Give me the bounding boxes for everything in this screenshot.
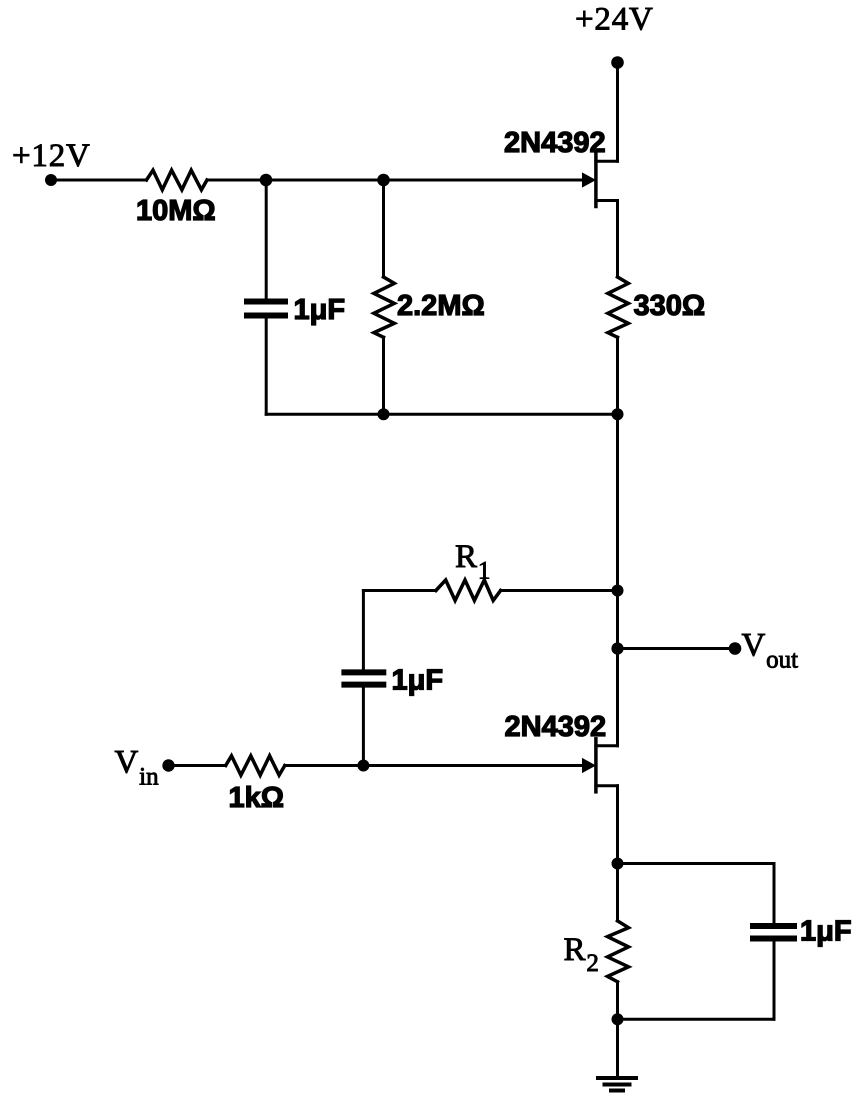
svg-text:2N4392: 2N4392	[504, 127, 606, 159]
svg-text:R1: R1	[455, 539, 490, 585]
wire R1 left vertical	[362, 591, 365, 670]
node junction bus / 2.2M	[378, 408, 390, 420]
svg-text:Vin: Vin	[115, 745, 160, 791]
resistor R1	[436, 580, 501, 601]
ground	[596, 1076, 638, 1080]
wire rail down to Vout node	[616, 591, 619, 649]
transistor Q2 2N4392 channel bar	[594, 739, 598, 792]
wire C3 down	[773, 942, 776, 1020]
node Vout terminal	[729, 642, 742, 655]
wire bypass top	[618, 862, 775, 865]
wire R2 to ground node	[616, 982, 619, 1019]
node junction A (cap branch)	[260, 174, 273, 187]
node Vout junction	[611, 642, 623, 654]
node junction source / bypass	[612, 858, 624, 870]
wire Q2 gate arrow	[169, 764, 226, 767]
wire R1 right lead	[501, 589, 618, 592]
wire Vout node down to Q2 drain	[616, 649, 619, 746]
wire C1 to bottom bus	[265, 319, 268, 415]
node Vin terminal	[162, 759, 174, 771]
wire junction B to R 2.2M	[382, 180, 385, 277]
wire Q2 source lead	[596, 784, 618, 787]
resistor 10M ohm	[147, 170, 208, 190]
wire Q1 drain lead	[596, 160, 618, 163]
svg-text:1μF: 1μF	[392, 665, 444, 697]
node junction R1 / drain rail	[612, 585, 624, 597]
svg-text:1μF: 1μF	[800, 916, 852, 948]
wire junction A to C1	[265, 180, 268, 299]
wire source node to R2	[616, 864, 619, 921]
wire ground lead	[616, 1019, 619, 1076]
wire Vout tap	[618, 647, 736, 650]
svg-text:1kΩ: 1kΩ	[229, 782, 285, 814]
capacitor C3 1uF plates	[750, 923, 797, 929]
svg-text:330Ω: 330Ω	[634, 290, 706, 322]
node +12V supply terminal	[45, 174, 57, 186]
node junction C2 / gate	[357, 760, 369, 772]
wire Q2 drain lead	[596, 744, 618, 747]
svg-text:Vout: Vout	[742, 628, 799, 674]
wire bus down to R1 node	[616, 414, 619, 590]
wire R 330 to bottom bus	[616, 337, 619, 414]
transistor Q1 2N4392 channel bar	[594, 154, 598, 207]
svg-text:1μF: 1μF	[294, 294, 346, 326]
node junction R2 / C3	[612, 1013, 624, 1025]
wire C2 to Vin junction	[362, 688, 365, 766]
wire bypass bottom	[618, 1018, 775, 1021]
wire to C3	[773, 864, 776, 924]
wire R 10M to gate	[207, 179, 384, 182]
node junction bus / 330	[612, 408, 624, 420]
wire +24V to Q1 drain	[616, 63, 619, 162]
svg-text:+12V: +12V	[12, 138, 91, 174]
wire Q1 gate arrow	[384, 179, 584, 182]
wire +12V to R 10M	[51, 179, 147, 182]
svg-text:R2: R2	[564, 932, 599, 977]
wire Q1 source to R 330	[616, 201, 619, 278]
capacitor C2 1uF plates	[341, 669, 386, 675]
resistor R2	[608, 921, 629, 982]
resistor 1k ohm	[226, 756, 285, 775]
wire Q2 source down	[616, 786, 619, 864]
svg-text:10MΩ: 10MΩ	[136, 195, 216, 227]
capacitor C1 1uF plates	[244, 299, 288, 305]
wire Q1 source lead	[596, 199, 618, 202]
node junction B (2.2M branch)	[377, 174, 390, 187]
wire R1 left lead	[363, 589, 436, 592]
resistor 2.2M ohm	[374, 277, 394, 337]
wire R 2.2M to bottom bus	[382, 337, 385, 414]
svg-text:2N4392: 2N4392	[505, 711, 607, 743]
svg-text:+24V: +24V	[575, 2, 654, 38]
svg-text:2.2MΩ: 2.2MΩ	[397, 290, 485, 322]
node +24V supply terminal	[611, 56, 624, 69]
resistor 330 ohm	[608, 277, 628, 337]
wire bottom bus	[266, 413, 617, 416]
